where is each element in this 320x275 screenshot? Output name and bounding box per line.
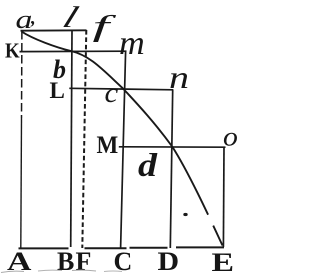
svg-text:l: l <box>58 1 82 34</box>
svg-text:o: o <box>223 123 238 152</box>
svg-text:K: K <box>5 40 20 63</box>
svg-text:c: c <box>105 78 119 108</box>
wire: horizontal line M-d-o <box>119 146 226 148</box>
wire: vertical line B-l <box>71 31 72 247</box>
wire: vertical line Aa lower solid part <box>20 118 23 248</box>
wire: dashed vertical line F-f <box>82 30 86 248</box>
wire: base line segment C-D <box>130 247 168 249</box>
wire: vertical line D-n <box>170 90 172 249</box>
svg-text:L: L <box>50 78 65 103</box>
svg-text:M: M <box>97 132 119 159</box>
svg-text:,: , <box>30 8 36 29</box>
wire: horizontal line L-c-n <box>69 88 173 90</box>
svg-text:n: n <box>169 60 189 95</box>
wire: top edge a-l-f <box>21 29 87 31</box>
svg-text:E: E <box>212 248 235 275</box>
wire: vertical line C-m <box>121 52 126 249</box>
svg-text:m: m <box>119 24 145 62</box>
gap break in curve near bottom right <box>205 214 215 227</box>
wire: base line segment A-B <box>19 247 69 249</box>
node dot in rectangle D-E <box>183 213 187 216</box>
svg-text:a: a <box>16 5 33 34</box>
wire: vertical line E-o <box>222 147 225 248</box>
curve a-b-c-d-E <box>22 32 223 246</box>
wire: base line segment D-E <box>176 246 224 248</box>
wire: vertical line Aa (dashed upper part) <box>21 31 23 118</box>
svg-text:D: D <box>158 248 180 275</box>
svg-text:f: f <box>93 10 117 43</box>
svg-text:d: d <box>138 146 158 183</box>
wire: horizontal line K-b-m <box>20 50 127 52</box>
wire: base line segment F-C <box>85 247 127 249</box>
faint next-line artifacts at page bottom <box>1 271 24 272</box>
